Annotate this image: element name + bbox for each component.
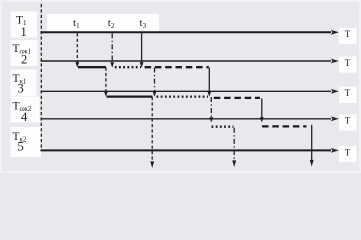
T box row4 <box>339 114 357 130</box>
arrowhead t1 onto row2 <box>75 62 79 67</box>
arrowhead t2 onto row2 <box>110 62 114 67</box>
arrowhead msg1 departure <box>150 161 154 168</box>
msg2 waiting trace row4 (dotted) <box>212 126 234 128</box>
arrowhead t3 onto row2 <box>140 62 144 67</box>
msg3 drop to channel1 solid vertical <box>208 68 210 92</box>
t3 arrival solid vertical <box>141 33 143 62</box>
msg2 drop to row4 dash-dot vertical <box>210 97 212 118</box>
arrowhead axis row5 <box>331 148 339 153</box>
svg-text:T: T <box>345 147 351 157</box>
arrowhead axis row3 <box>331 89 339 94</box>
arrowhead axis row2 <box>331 59 339 64</box>
label box Tk1/3 <box>11 70 37 97</box>
svg-text:T: T <box>345 29 351 39</box>
msg3 departure solid vertical <box>311 125 313 162</box>
msg2 departure dash-dot vertical <box>233 128 235 162</box>
svg-text:1: 1 <box>21 25 27 39</box>
label box Tk2/5 <box>11 127 42 157</box>
axis row3 Tk1 <box>41 90 332 92</box>
arrowhead msg2 onto row4 <box>209 117 213 122</box>
T box row3 <box>339 87 357 103</box>
time origin dashed vertical <box>40 4 42 150</box>
arrowhead msg1 onto row3 <box>104 91 108 96</box>
arrowhead msg3 onto row4 <box>260 117 264 122</box>
msg2 entry to channel1 dash-dot vertical <box>154 68 156 92</box>
t2 arrival dash-dot vertical <box>111 33 113 62</box>
msg3 drop to row4 solid vertical <box>261 98 263 118</box>
svg-text:T: T <box>345 116 351 126</box>
top t-label strip <box>47 14 159 31</box>
svg-text:3: 3 <box>18 82 24 96</box>
msg1 drop to channel1 dashed vertical <box>105 68 107 92</box>
t1 arrival dashed vertical <box>76 33 78 62</box>
msg2 waiting trace row2 (dotted) <box>115 66 141 68</box>
msg3 waiting trace row4 (dashed) <box>262 125 307 127</box>
arrowhead msg3 onto row3 <box>207 91 211 96</box>
arrowhead axis row1 <box>331 30 339 35</box>
label box T1/1 <box>11 12 38 38</box>
arrowhead msg2 departure <box>232 160 236 167</box>
svg-text:5: 5 <box>18 140 24 154</box>
svg-text:4: 4 <box>21 110 28 124</box>
axis row5 Tk2 <box>41 149 332 151</box>
svg-text:T: T <box>345 58 351 68</box>
msg3 service trace row3 (dashed) <box>214 97 260 99</box>
background field <box>0 0 361 173</box>
label box Tozh1/2 <box>11 40 38 66</box>
T box row5 <box>339 146 357 162</box>
msg3 waiting trace row2 (dashed) <box>145 66 209 68</box>
axis row1 T1 <box>41 31 332 33</box>
svg-text:2: 2 <box>21 53 27 67</box>
msg2 service trace row3 (dotted) <box>157 95 209 97</box>
label box Tozh2/4 <box>11 97 40 123</box>
svg-text:T: T <box>345 88 351 98</box>
arrowhead msg2 onto row3 <box>153 91 157 96</box>
axis row2 Tozh1 <box>41 60 332 62</box>
msg1 service trace row3 (solid) <box>107 95 153 97</box>
T box row1 <box>339 28 357 44</box>
msg1 departure dashed vertical <box>151 97 153 163</box>
axis row4 Tozh2 <box>41 118 332 120</box>
msg1 waiting trace row2 (solid) <box>78 66 106 68</box>
arrowhead msg3 departure <box>310 160 314 167</box>
T box row2 <box>339 56 357 72</box>
arrowhead axis row4 <box>331 116 339 121</box>
